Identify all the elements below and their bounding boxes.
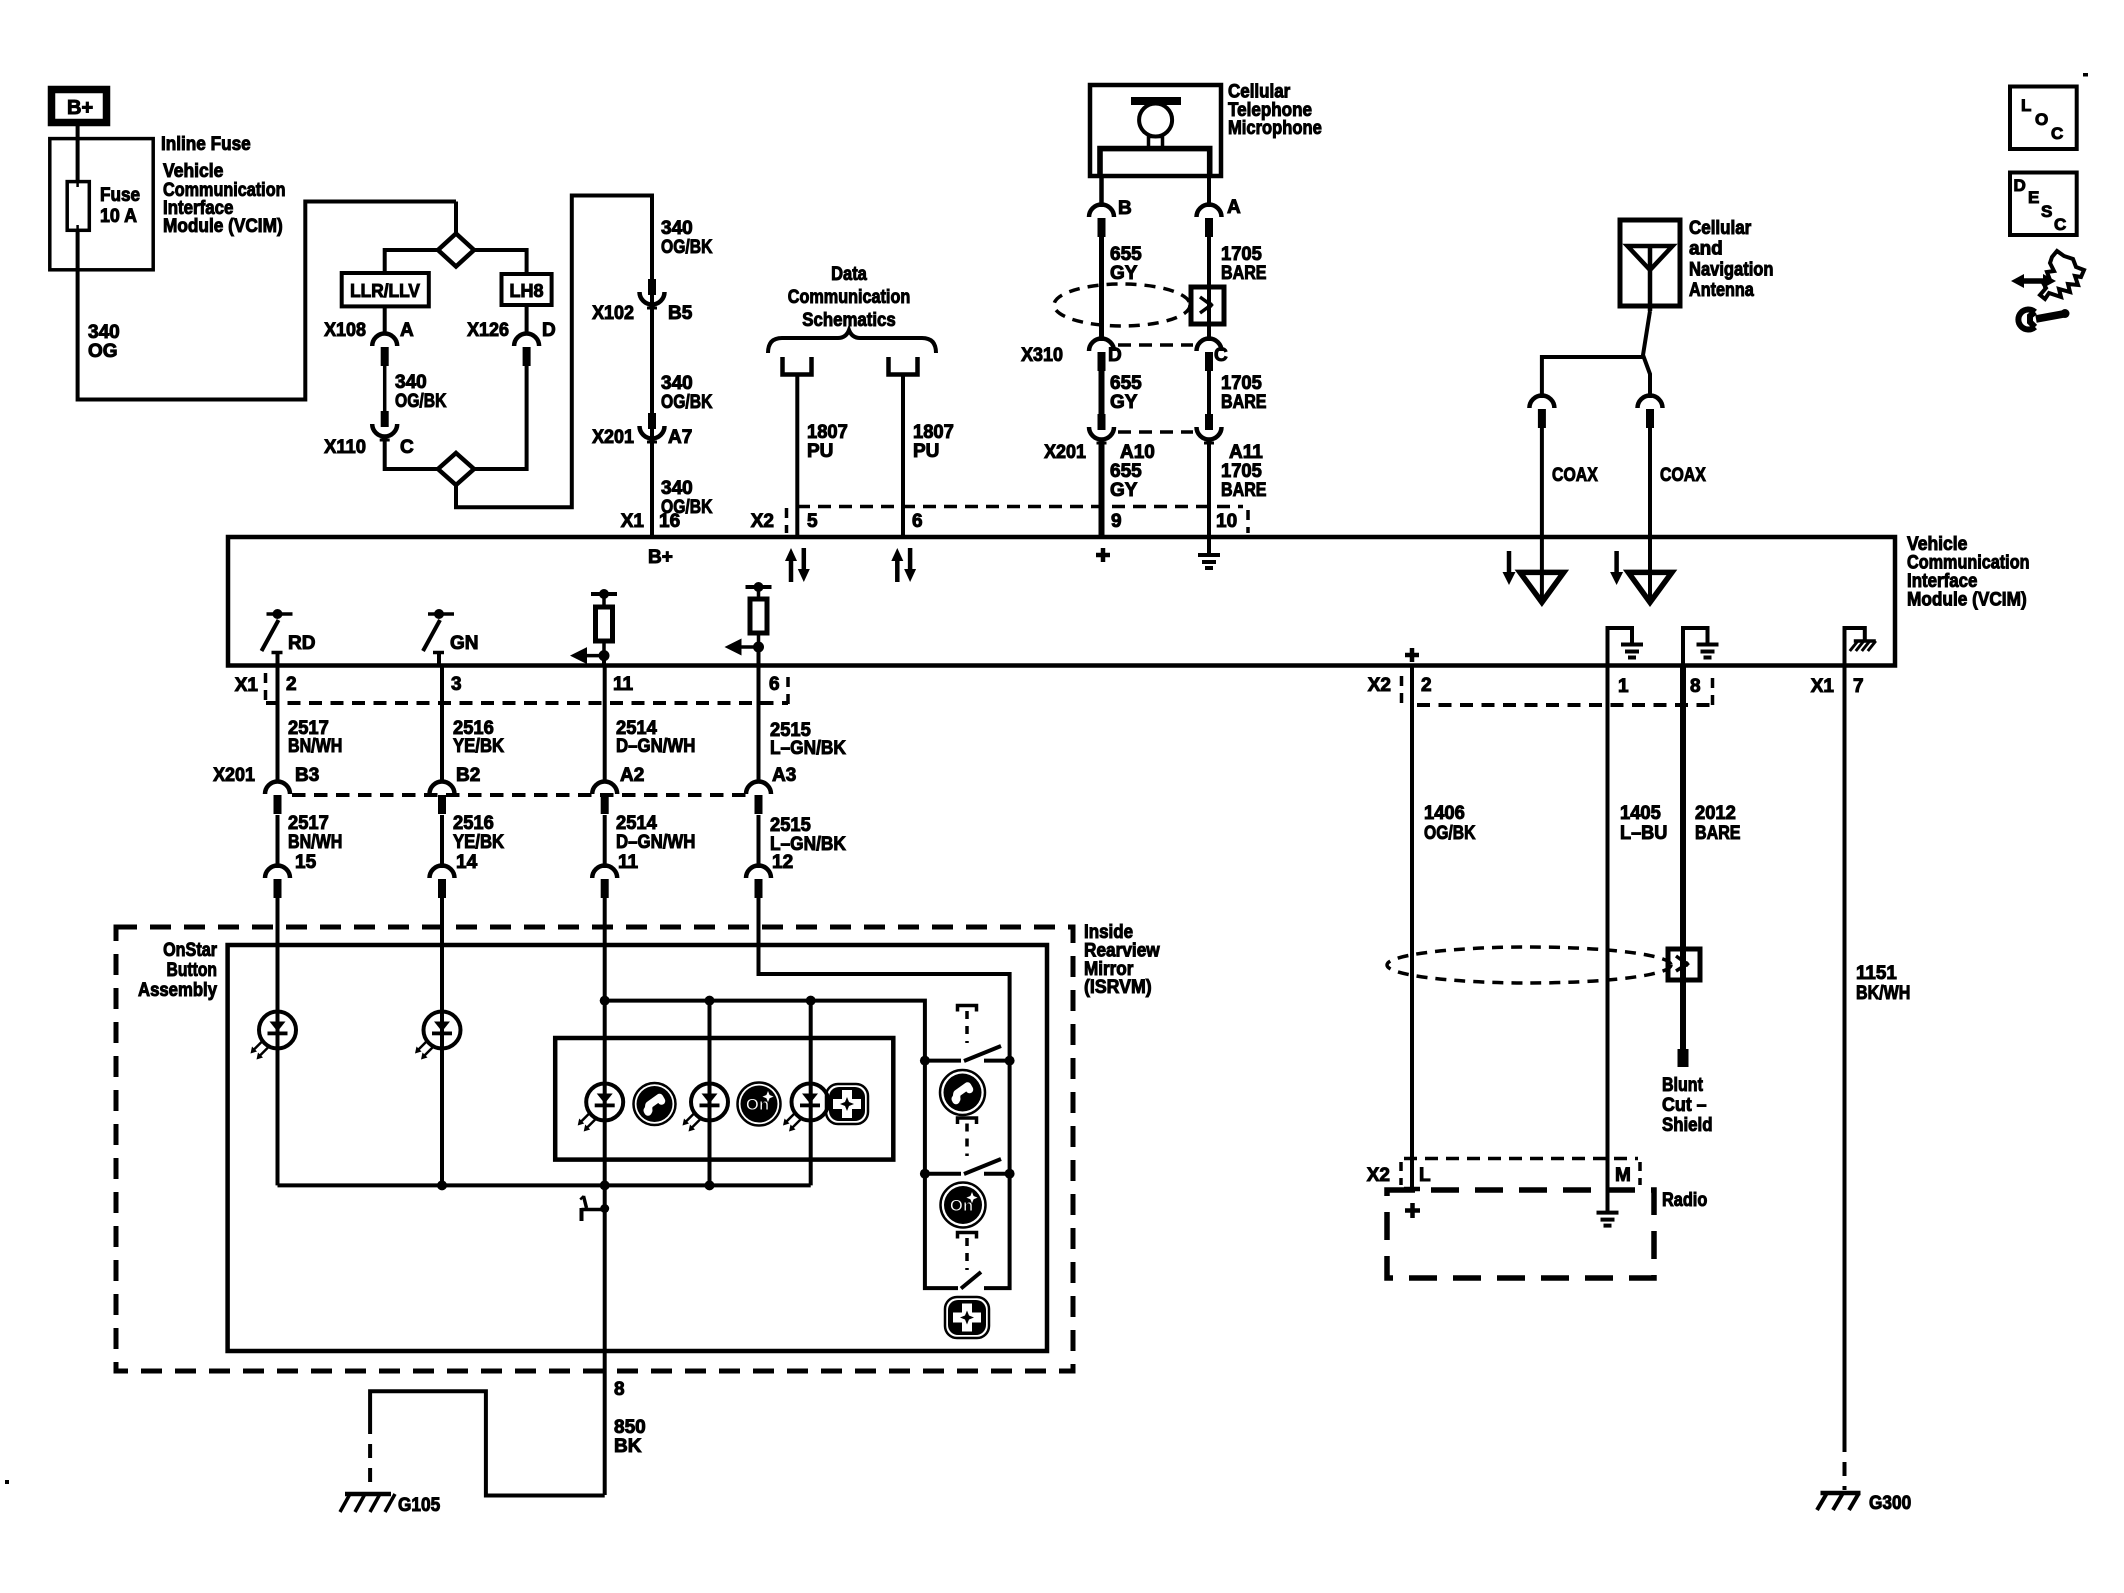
connector mic pin A xyxy=(1197,204,1222,237)
svg-text:B2: B2 xyxy=(456,765,480,786)
svg-text:A3: A3 xyxy=(772,765,796,786)
label Blunt Cut Shield xyxy=(1662,1075,1713,1136)
radio dashed box xyxy=(1387,1190,1654,1278)
dashed wire to G300 xyxy=(1843,1438,1847,1490)
switch blade 1 xyxy=(964,1046,1001,1061)
wire 2516 lower xyxy=(440,815,444,868)
wire 1807 PU right xyxy=(901,375,905,538)
label Vehicle Communication Interface Module (VCIM) right xyxy=(1907,534,2030,611)
wire LLR/LLV to X108 xyxy=(383,306,387,335)
svg-text:GY: GY xyxy=(1110,263,1138,284)
connector X201 pin A2 xyxy=(592,782,617,815)
junction dots cathode bus xyxy=(437,1180,715,1190)
dashed tick right of M xyxy=(1638,1162,1642,1185)
svg-text:OG: OG xyxy=(88,341,118,362)
wire 2515 pin6 upper xyxy=(757,666,761,782)
phone indicator icon xyxy=(634,1083,676,1125)
svg-text:340: 340 xyxy=(661,478,693,499)
wire to LLR/LLV xyxy=(385,250,438,273)
connector ISRVM pin 11 xyxy=(592,852,638,898)
label X310 / D / C xyxy=(1021,345,1228,366)
coax antenna input triangle left xyxy=(1520,537,1564,602)
svg-text:3: 3 xyxy=(451,674,462,695)
module VCIM box xyxy=(228,537,1895,666)
dashed connector row radio xyxy=(1404,1157,1638,1161)
twisted shield ellipse mic xyxy=(1054,284,1190,326)
ground symbol above pin 8 xyxy=(1683,628,1719,664)
svg-text:Blunt: Blunt xyxy=(1662,1075,1703,1096)
svg-text:X201: X201 xyxy=(1044,442,1086,463)
svg-text:X310: X310 xyxy=(1021,345,1063,366)
svg-text:and: and xyxy=(1689,239,1723,260)
cathode bus xyxy=(278,1183,811,1187)
svg-text:YE/BK: YE/BK xyxy=(453,736,504,757)
wire pin2 into LED1 xyxy=(276,898,280,1185)
wire 2517 pin2 upper xyxy=(276,666,280,782)
label X1 | 7 pin bottom xyxy=(1811,676,1864,697)
wire mic pin A xyxy=(1207,176,1211,207)
coax arrow right xyxy=(1610,551,1623,585)
splice diamond S2 bottom xyxy=(438,453,474,485)
coax arrow left xyxy=(1503,551,1516,585)
svg-text:Fuse: Fuse xyxy=(100,185,140,206)
connector X108 pin A xyxy=(372,334,397,367)
wire LH8 pin D branch xyxy=(525,305,529,335)
label Fuse 10 A xyxy=(100,185,140,227)
wire 850 BK to G105 xyxy=(370,1391,605,1495)
svg-text:G105: G105 xyxy=(398,1495,441,1516)
svg-text:1: 1 xyxy=(1618,676,1629,697)
label 340 OG/BK riser lower xyxy=(661,478,713,518)
wire 1406 OG/BK xyxy=(1410,666,1414,1190)
OnStar button assembly dashed box xyxy=(116,927,1073,1371)
connector X310 pin C xyxy=(1197,339,1222,372)
wire LED3 drop xyxy=(708,1001,712,1186)
svg-text:X2: X2 xyxy=(1367,1165,1390,1186)
svg-text:C: C xyxy=(2051,124,2063,143)
label 2515 L-GN/BK lower xyxy=(770,815,846,855)
shield terminator box mic xyxy=(1191,287,1224,324)
dashed line X201 mic row xyxy=(1118,430,1193,434)
label 655 GY lower xyxy=(1110,461,1142,501)
wire 2516 pin3 upper xyxy=(440,666,444,782)
label 1406 OG/BK xyxy=(1424,803,1476,844)
svg-text:B+: B+ xyxy=(648,547,673,568)
svg-text:X2: X2 xyxy=(751,511,774,532)
svg-text:Shield: Shield xyxy=(1662,1115,1713,1136)
label 9 / 10 pins xyxy=(1111,511,1237,532)
svg-text:1405: 1405 xyxy=(1620,803,1661,824)
wire LED4 drop xyxy=(809,1001,813,1186)
dashed tick X1 bottom xyxy=(264,673,268,701)
label X102 / B5 xyxy=(592,303,693,324)
antenna symbol xyxy=(1628,246,1673,311)
wire pin12 route to switch rail xyxy=(759,898,1010,1061)
svg-text:6: 6 xyxy=(912,511,923,532)
engine option box LLR/LLV xyxy=(342,273,429,306)
label X2 | 5 | 6 pins xyxy=(751,511,923,532)
push button bracket 3 xyxy=(958,1233,977,1239)
wire X110 to splice S2 xyxy=(385,440,438,469)
dashed actuator link 2 xyxy=(965,1124,969,1157)
svg-text:A10: A10 xyxy=(1120,442,1155,463)
svg-text:D: D xyxy=(1108,345,1122,366)
svg-text:YE/BK: YE/BK xyxy=(453,832,504,853)
connector X126 pin D xyxy=(514,334,539,367)
label X110 / C xyxy=(324,437,414,458)
svg-text:BARE: BARE xyxy=(1221,263,1267,284)
svg-text:Module (VCIM): Module (VCIM) xyxy=(1907,590,2027,611)
svg-text:340: 340 xyxy=(88,322,120,343)
label 655 GY mid xyxy=(1110,373,1142,413)
svg-text:COAX: COAX xyxy=(1552,465,1598,486)
wire end bar 1406 xyxy=(1404,1187,1420,1192)
LOC quick-link box xyxy=(2010,87,2077,150)
wire COAX right xyxy=(1648,428,1652,537)
svg-text:9: 9 xyxy=(1111,511,1122,532)
svg-text:850: 850 xyxy=(614,1417,646,1438)
switch blade 2 xyxy=(964,1159,1001,1174)
dashed connector row X2 top xyxy=(797,505,1243,509)
wire 655 GY upper xyxy=(1099,237,1104,341)
svg-text:A: A xyxy=(1227,197,1241,218)
svg-text:X201: X201 xyxy=(592,427,634,448)
OnStar button icon xyxy=(941,1183,986,1228)
label X2 | L | M radio row xyxy=(1367,1165,1631,1186)
dashed connector row X201 xyxy=(292,793,746,797)
resistor pull-up pin 6 xyxy=(725,582,772,666)
chassis ground G300 xyxy=(1817,1493,1861,1510)
connector ISRVM pin 12 xyxy=(746,852,793,898)
engine option box LH8 xyxy=(502,274,552,305)
connector X310 pin D xyxy=(1089,339,1114,372)
svg-text:L: L xyxy=(2021,96,2031,115)
svg-text:D: D xyxy=(2014,176,2026,195)
svg-text:B3: B3 xyxy=(295,765,319,786)
svg-text:1705: 1705 xyxy=(1221,373,1262,394)
svg-text:BK/WH: BK/WH xyxy=(1856,983,1910,1004)
svg-text:Button: Button xyxy=(167,960,218,981)
svg-text:2516: 2516 xyxy=(453,813,494,834)
svg-text:2012: 2012 xyxy=(1695,803,1736,824)
svg-text:1705: 1705 xyxy=(1221,461,1262,482)
label 2012 BARE xyxy=(1695,803,1741,844)
LED 4 xyxy=(683,1084,729,1132)
svg-text:11: 11 xyxy=(613,674,634,695)
dashed tick left of X2-2 xyxy=(1400,676,1404,704)
label 1705 BARE upper xyxy=(1221,244,1267,284)
mic ground symbol pin 10 xyxy=(1198,537,1220,568)
svg-text:LLR/LLV: LLR/LLV xyxy=(350,281,420,301)
svg-text:10 A: 10 A xyxy=(100,206,137,227)
svg-text:X110: X110 xyxy=(324,437,366,458)
dashed tick right of pin 6 xyxy=(786,677,790,705)
switch rail left mid xyxy=(923,1061,927,1174)
svg-text:2: 2 xyxy=(1421,675,1432,696)
svg-text:2: 2 xyxy=(286,674,297,695)
switch RD xyxy=(262,609,316,666)
connector coax left xyxy=(1529,396,1554,429)
wire pin11 trunk xyxy=(603,898,607,1495)
label X1 | 16 pin xyxy=(621,511,680,532)
wire 1151 BK/WH xyxy=(1843,666,1847,1439)
svg-text:GY: GY xyxy=(1110,392,1138,413)
label Cellular and Navigation Antenna xyxy=(1689,218,1774,301)
svg-text:(ISRVM): (ISRVM) xyxy=(1084,977,1152,998)
label OnStar Button Assembly xyxy=(138,940,218,1001)
DESC quick-link box xyxy=(2010,173,2077,236)
svg-text:5: 5 xyxy=(807,511,818,532)
splice diamond S1 top xyxy=(438,202,474,267)
svg-text:7: 7 xyxy=(1853,676,1864,697)
svg-text:X126: X126 xyxy=(467,320,509,341)
label X201 / A7 xyxy=(592,427,692,448)
svg-text:A11: A11 xyxy=(1229,442,1263,463)
wire 340 OG/BK X108 to X110 xyxy=(383,366,387,412)
phone button icon xyxy=(940,1070,985,1115)
svg-text:Cut –: Cut – xyxy=(1662,1095,1707,1116)
svg-text:1807: 1807 xyxy=(913,422,954,443)
label 340 OG/BK riser upper xyxy=(661,218,713,258)
svg-text:6: 6 xyxy=(769,674,780,695)
label 340 OG/BK riser middle xyxy=(661,373,713,413)
svg-text:D–GN/WH: D–GN/WH xyxy=(616,736,695,757)
wire coax branch left xyxy=(1542,357,1643,398)
plus symbol above pin X2-2 xyxy=(1405,648,1419,662)
switch 1 contacts xyxy=(920,1056,1015,1066)
svg-text:L: L xyxy=(1419,1165,1431,1186)
dashed actuator link 3 xyxy=(965,1238,969,1270)
connector coax right xyxy=(1638,396,1663,429)
svg-text:X1: X1 xyxy=(621,511,645,532)
connector ISRVM pin 15 xyxy=(265,852,317,898)
svg-text:L–BU: L–BU xyxy=(1620,823,1667,844)
svg-text:10: 10 xyxy=(1216,511,1237,532)
svg-text:S: S xyxy=(2041,202,2052,221)
wire 2514 lower xyxy=(603,815,607,868)
label X108 / A xyxy=(324,320,414,341)
svg-text:Microphone: Microphone xyxy=(1228,118,1322,139)
svg-text:8: 8 xyxy=(1690,676,1701,697)
svg-text:2517: 2517 xyxy=(288,813,329,834)
svg-text:1151: 1151 xyxy=(1856,963,1897,984)
svg-text:8: 8 xyxy=(614,1379,625,1400)
svg-text:16: 16 xyxy=(659,511,680,532)
wire 1405 L-BU xyxy=(1606,666,1610,1212)
wire 1705 BARE mid xyxy=(1207,371,1211,415)
switch GN xyxy=(423,609,479,666)
svg-text:D: D xyxy=(542,320,556,341)
speck bottom left xyxy=(5,1480,9,1484)
switch rail right mid xyxy=(1008,1061,1012,1174)
connector X201 pin A3 xyxy=(746,782,771,815)
wire 2517 lower xyxy=(276,815,280,868)
wire 2515 lower xyxy=(757,815,761,868)
label wire 340 OG xyxy=(88,322,120,362)
label 2514 D-GN/WH lower xyxy=(616,813,695,853)
label Data Communication Schematics xyxy=(788,264,911,331)
label 2515 L-GN/BK upper xyxy=(770,720,846,759)
twisted shield ellipse radio xyxy=(1387,947,1671,983)
svg-text:D–GN/WH: D–GN/WH xyxy=(616,832,695,853)
label 655 GY upper xyxy=(1110,244,1142,284)
fuse F 10A symbol xyxy=(67,182,89,231)
svg-text:PU: PU xyxy=(807,441,833,462)
serial data arrows pin 5 xyxy=(785,548,810,582)
blunt cut shield wire tip xyxy=(1678,1049,1689,1067)
svg-text:BARE: BARE xyxy=(1695,823,1741,844)
ground tap symbol on trunk xyxy=(580,1196,609,1221)
svg-text:655: 655 xyxy=(1110,461,1142,482)
svg-text:Assembly: Assembly xyxy=(138,980,217,1001)
svg-text:C: C xyxy=(1214,345,1228,366)
svg-text:OG/BK: OG/BK xyxy=(395,391,447,412)
svg-text:Communication: Communication xyxy=(788,287,911,308)
wire mic pin B xyxy=(1099,176,1104,207)
connector ISRVM pin 14 xyxy=(430,852,478,898)
label 2517 BN/WH lower xyxy=(288,813,342,853)
svg-text:A7: A7 xyxy=(668,427,692,448)
wire 655 GY mid xyxy=(1099,371,1105,415)
wire pin3 into LED2 xyxy=(440,898,444,1185)
svg-text:LH8: LH8 xyxy=(509,281,543,301)
connector X201 pin A7 xyxy=(640,413,665,442)
wire 2012 BARE xyxy=(1680,666,1686,1051)
brace under data label xyxy=(768,330,936,353)
svg-text:E: E xyxy=(2028,188,2039,207)
svg-text:OnStar: OnStar xyxy=(163,940,217,961)
label 340 OG/BK xyxy=(395,372,447,412)
wire antenna split jog xyxy=(1643,311,1650,398)
switch blade 3 xyxy=(961,1272,981,1289)
svg-text:Module (VCIM): Module (VCIM) xyxy=(163,216,283,237)
svg-text:BN/WH: BN/WH xyxy=(288,736,342,757)
shield terminator box radio xyxy=(1668,949,1700,980)
connector X110 pin C xyxy=(372,411,397,440)
label 2516 YE/BK upper xyxy=(453,718,504,757)
cellular telephone microphone box xyxy=(1090,85,1221,176)
inline fuse box xyxy=(50,139,153,270)
off-page stub left xyxy=(783,357,812,375)
svg-text:1807: 1807 xyxy=(807,422,848,443)
label 2517 BN/WH upper xyxy=(288,718,342,757)
coax antenna input triangle right xyxy=(1628,537,1672,602)
svg-text:PU: PU xyxy=(913,441,939,462)
junction dots anode bus xyxy=(600,996,816,1006)
label 1807 PU right xyxy=(913,422,954,462)
svg-text:X1: X1 xyxy=(235,675,259,696)
label 1705 BARE mid xyxy=(1221,373,1267,413)
svg-text:14: 14 xyxy=(456,852,478,873)
cross indicator icon xyxy=(826,1084,868,1124)
wire splice S2 to VCIM riser xyxy=(456,196,652,538)
wire 1705 BARE upper xyxy=(1207,237,1211,341)
ground symbol radio pin M xyxy=(1597,1213,1619,1226)
svg-text:BARE: BARE xyxy=(1221,392,1267,413)
svg-text:X102: X102 xyxy=(592,303,634,324)
svg-text:B+: B+ xyxy=(67,97,93,119)
svg-text:340: 340 xyxy=(661,373,693,394)
label 1151 BK/WH xyxy=(1856,963,1910,1004)
svg-text:GN: GN xyxy=(450,633,479,654)
switch rail right low xyxy=(984,1174,1010,1288)
speck top right xyxy=(2083,73,2088,77)
label 1705 BARE lower xyxy=(1221,461,1267,501)
dashed tick X2 top row xyxy=(785,508,789,533)
svg-text:A: A xyxy=(400,320,414,341)
svg-text:COAX: COAX xyxy=(1660,465,1706,486)
dashed line X310 row xyxy=(1118,343,1193,347)
svg-text:B5: B5 xyxy=(668,303,693,324)
label Vehicle Communication Interface Module (VCIM) left xyxy=(163,161,286,237)
wire to LH8 xyxy=(474,250,527,274)
svg-text:Vehicle: Vehicle xyxy=(163,161,223,182)
label Inside Rearview Mirror (ISRVM) xyxy=(1084,922,1160,998)
svg-text:Data: Data xyxy=(831,264,867,285)
mic + symbol pin 9 xyxy=(1096,548,1110,562)
svg-text:11: 11 xyxy=(618,852,639,873)
svg-text:OG/BK: OG/BK xyxy=(661,237,713,258)
svg-text:Radio: Radio xyxy=(1662,1190,1707,1211)
resistor pull-up pin 11 xyxy=(570,589,617,666)
connector X201 pin B3 xyxy=(265,782,290,815)
svg-text:340: 340 xyxy=(395,372,427,393)
wire 655 GY lower to pin 9 xyxy=(1099,443,1105,537)
svg-text:A2: A2 xyxy=(620,765,644,786)
dashed tick right of pin 8 xyxy=(1711,678,1715,706)
cellular and navigation antenna box xyxy=(1620,220,1680,306)
svg-text:Navigation: Navigation xyxy=(1689,260,1774,281)
anode bus xyxy=(605,1001,925,1061)
svg-text:Cellular: Cellular xyxy=(1689,218,1752,239)
svg-text:655: 655 xyxy=(1110,373,1142,394)
svg-text:RD: RD xyxy=(288,633,315,654)
microphone icon xyxy=(1100,97,1210,176)
LED 5 xyxy=(783,1084,829,1132)
connector X201 pin A11 xyxy=(1197,414,1222,443)
chassis ground G105 xyxy=(340,1494,395,1512)
svg-text:BN/WH: BN/WH xyxy=(288,832,342,853)
svg-text:1705: 1705 xyxy=(1221,244,1262,265)
svg-text:C: C xyxy=(2054,215,2066,234)
dashed wire segment to G105 xyxy=(368,1420,372,1492)
svg-text:2515: 2515 xyxy=(770,815,811,836)
svg-text:GY: GY xyxy=(1110,480,1138,501)
curved glyph icon xyxy=(2040,251,2084,299)
connector X201 pin B2 xyxy=(430,782,455,815)
wire 1705 BARE lower to pin 10 xyxy=(1207,443,1211,537)
dashed actuator link 1 xyxy=(965,1011,969,1043)
svg-text:OG/BK: OG/BK xyxy=(1424,823,1476,844)
wire COAX left xyxy=(1540,428,1544,537)
svg-text:340: 340 xyxy=(661,218,693,239)
svg-text:655: 655 xyxy=(1110,244,1142,265)
connector X102 pin B5 xyxy=(640,279,665,308)
label 850 BK xyxy=(614,1417,646,1457)
wire X126 to splice S2 xyxy=(474,366,527,469)
serial data arrows pin 6 xyxy=(891,548,916,582)
plus symbol radio pin L xyxy=(1405,1203,1420,1218)
svg-text:L–GN/BK: L–GN/BK xyxy=(770,738,846,759)
label 1405 L-BU xyxy=(1620,803,1667,844)
switch rail left low xyxy=(925,1174,958,1288)
LED 1 xyxy=(251,1012,297,1060)
svg-text:12: 12 xyxy=(772,852,793,873)
wrench icon xyxy=(2018,309,2069,330)
label X201 / A10 / A11 xyxy=(1044,442,1263,463)
double arrow icon xyxy=(2011,274,2056,288)
svg-text:B: B xyxy=(1118,198,1132,219)
